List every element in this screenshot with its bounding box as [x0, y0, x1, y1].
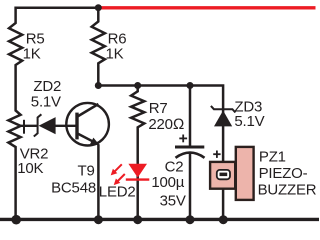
svg-text:ZD2: ZD2: [33, 78, 61, 95]
svg-text:BUZZER: BUZZER: [258, 181, 317, 198]
svg-text:35V: 35V: [160, 192, 186, 209]
svg-text:5.1V: 5.1V: [31, 94, 61, 111]
svg-text:5.1V: 5.1V: [234, 113, 264, 130]
svg-text:1K: 1K: [106, 45, 124, 62]
svg-text:R7: R7: [149, 100, 168, 117]
svg-text:LED2: LED2: [99, 183, 136, 200]
svg-text:PIEZO-: PIEZO-: [259, 165, 308, 182]
svg-text:220Ω: 220Ω: [148, 116, 184, 133]
svg-text:T9: T9: [77, 162, 94, 179]
svg-text:BC548: BC548: [51, 180, 96, 197]
svg-text:C2: C2: [165, 158, 184, 175]
svg-text:100µ: 100µ: [151, 174, 184, 191]
svg-text:10K: 10K: [17, 160, 43, 177]
svg-text:1K: 1K: [23, 45, 41, 62]
svg-text:PZ1: PZ1: [259, 148, 286, 165]
